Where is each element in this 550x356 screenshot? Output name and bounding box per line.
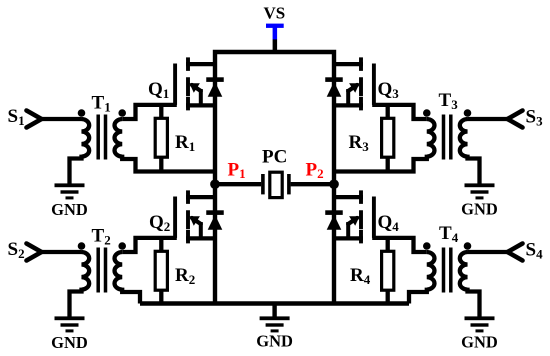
svg-text:GND: GND <box>256 331 293 350</box>
transistor Q1 substrate arrow <box>189 83 200 93</box>
wire T4 inner winding to Q4 gate <box>372 238 427 252</box>
wire S3 to T3 outer winding <box>468 117 508 121</box>
svg-text:GND: GND <box>51 200 88 219</box>
ground GND2 bars <box>55 316 85 320</box>
wire T4 inner winding bottom to ground rail <box>409 288 427 304</box>
crystal PC body <box>270 172 282 197</box>
wire T3 inner winding to Q3 gate <box>372 105 427 119</box>
resistor R4 body <box>382 251 394 290</box>
resistor R4 bottom lead <box>386 290 390 303</box>
transformer T1 phase dot inner <box>118 109 126 117</box>
transformer T2 inner winding <box>115 252 123 290</box>
diode of Q3 cathode bar <box>325 77 343 82</box>
diode of Q4 cathode bar <box>325 210 343 215</box>
wire T3 inner winding bottom to source node <box>334 155 427 172</box>
ground GND4 bars <box>465 316 495 320</box>
wire bottom ground rail <box>140 301 409 305</box>
transistor Q3 drain lead <box>334 62 363 66</box>
transistor Q4 drain lead <box>334 195 363 199</box>
resistor R2 body <box>155 251 167 290</box>
transistor Q3 body lead <box>346 89 350 105</box>
ground GND3 bars <box>465 183 495 187</box>
transistor Q4 source lead <box>334 236 363 240</box>
transformer T4 core <box>444 248 451 293</box>
svg-text:GND: GND <box>461 199 498 218</box>
transformer T3 core <box>444 115 451 160</box>
wire crystal to P2 <box>291 182 334 186</box>
resistor R3 bottom lead <box>386 157 390 171</box>
diode of Q1 cathode bar <box>206 77 224 82</box>
node P1 <box>210 179 220 189</box>
supply VS terminal stem <box>273 25 278 40</box>
svg-text:PC: PC <box>262 147 287 168</box>
resistor R3 body <box>382 118 394 157</box>
transformer T3 outer winding <box>460 119 468 157</box>
transformer T2 phase dot outer <box>78 242 86 250</box>
transformer T1 inner winding <box>115 119 123 157</box>
transistor Q2 gate plate <box>173 197 177 238</box>
transistor Q1 body lead <box>199 89 203 105</box>
wire T2 secondary to Q2 gate <box>122 238 177 252</box>
transformer T1 outer winding <box>82 119 90 157</box>
transformer T4 phase dot outer <box>464 242 472 250</box>
wire T1 secondary to Q1 gate <box>122 105 177 119</box>
crystal PC left plate <box>261 174 265 194</box>
diode of Q1 anode triangle <box>208 82 223 97</box>
transformer T4 inner winding <box>427 252 435 290</box>
port arrow S3 <box>508 111 523 128</box>
transistor Q3 gate plate <box>372 64 376 105</box>
transistor Q3 source lead <box>334 103 363 107</box>
transistor Q3 channel segments <box>359 57 363 110</box>
transformer T3 phase dot outer <box>464 109 472 117</box>
port arrow S2 <box>27 244 42 261</box>
svg-text:VS: VS <box>264 4 286 23</box>
wire VS stem to rail <box>273 39 278 52</box>
transformer T2 core <box>98 248 105 293</box>
transformer T2 phase dot inner <box>118 242 126 250</box>
wire S2 to T2 primary <box>42 250 82 254</box>
resistor R1 body <box>155 118 167 157</box>
transformer T2 outer winding <box>82 252 90 290</box>
diode of Q4 anode triangle <box>327 215 342 230</box>
resistor R1 bottom lead <box>159 157 163 171</box>
crystal PC right plate <box>287 174 291 194</box>
diode of Q2 cathode bar <box>206 210 224 215</box>
wire T2 primary to ground <box>70 288 82 317</box>
wire left bridge rail (VS to bottom) <box>215 52 334 304</box>
transformer T1 phase dot outer <box>78 109 86 117</box>
svg-text:GND: GND <box>51 333 88 352</box>
wire T2 secondary bottom to ground rail <box>122 288 140 304</box>
wire T1 secondary bottom to source node <box>122 155 215 172</box>
wire P1 to crystal <box>215 182 261 186</box>
port arrow S1 <box>27 111 42 128</box>
ground GND1 bars <box>55 183 85 187</box>
transistor Q1 source lead <box>186 103 215 107</box>
diode of Q3 anode triangle <box>327 82 342 97</box>
wire S1 to T1 primary <box>42 117 82 121</box>
wire S4 to T4 outer winding <box>468 250 508 254</box>
transistor Q2 drain lead <box>186 195 215 199</box>
resistor R3 top lead <box>386 105 390 118</box>
transistor Q1 channel segments <box>186 57 190 110</box>
transformer T3 phase dot inner <box>423 109 431 117</box>
transistor Q2 body lead <box>199 222 203 238</box>
resistor R4 top lead <box>386 238 390 251</box>
wire T4 outer winding to ground <box>468 288 480 317</box>
transformer T1 core <box>98 115 105 160</box>
transistor Q1 gate plate <box>173 64 177 105</box>
diode of Q2 anode triangle <box>208 215 223 230</box>
wire ground rail stem <box>272 304 276 317</box>
transformer T3 inner winding <box>427 119 435 157</box>
transistor Q1 drain lead <box>186 62 215 66</box>
svg-text:GND: GND <box>461 332 498 351</box>
transistor Q4 channel segments <box>359 190 363 243</box>
resistor R1 top lead <box>159 105 163 118</box>
transistor Q2 channel segments <box>186 190 190 243</box>
transistor Q4 body lead <box>346 222 350 238</box>
transformer T4 phase dot inner <box>423 242 431 250</box>
transistor Q4 substrate arrow <box>349 216 360 226</box>
wire T1 primary to ground <box>70 155 82 184</box>
transformer T4 outer winding <box>460 252 468 290</box>
transistor Q4 gate plate <box>372 197 376 238</box>
transistor Q2 substrate arrow <box>189 216 200 226</box>
wire T3 outer winding to ground <box>468 155 480 184</box>
ground GND5 bars <box>260 316 290 320</box>
supply VS terminal bar <box>266 24 284 28</box>
resistor R2 bottom lead <box>159 290 163 303</box>
port arrow S4 <box>508 244 523 261</box>
transistor Q3 substrate arrow <box>349 83 360 93</box>
resistor R2 top lead <box>159 238 163 251</box>
transistor Q2 source lead <box>186 236 215 240</box>
node P2 <box>329 179 339 189</box>
